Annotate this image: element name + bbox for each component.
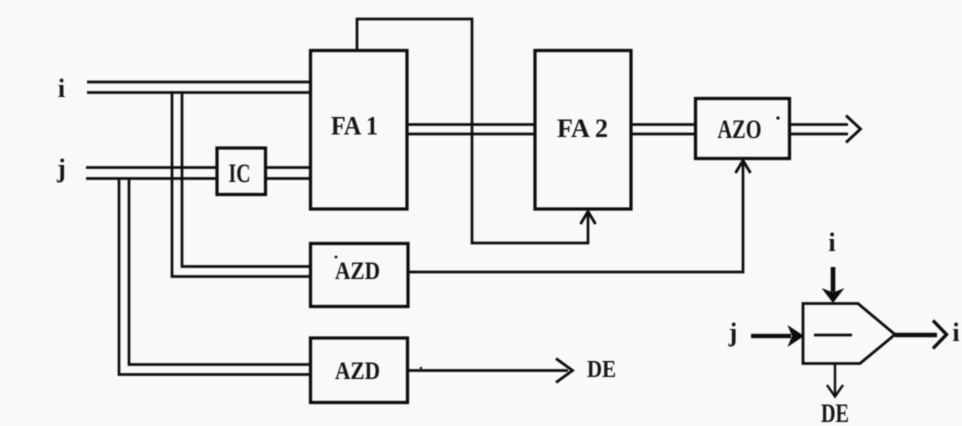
svg-text:IC: IC bbox=[229, 159, 251, 188]
svg-text:AZO: AZO bbox=[718, 115, 762, 144]
svg-text:DE: DE bbox=[821, 399, 849, 426]
svg-text:i: i bbox=[58, 74, 65, 103]
svg-text:j: j bbox=[56, 154, 66, 183]
svg-text:DE: DE bbox=[587, 357, 616, 383]
svg-text:FA 1: FA 1 bbox=[331, 112, 378, 141]
svg-text:i: i bbox=[828, 228, 835, 257]
svg-text:AZD: AZD bbox=[335, 258, 380, 285]
svg-text:i: i bbox=[952, 318, 959, 347]
svg-text:j: j bbox=[728, 318, 738, 347]
svg-text:AZD: AZD bbox=[335, 358, 380, 385]
svg-text:FA 2: FA 2 bbox=[557, 114, 608, 143]
